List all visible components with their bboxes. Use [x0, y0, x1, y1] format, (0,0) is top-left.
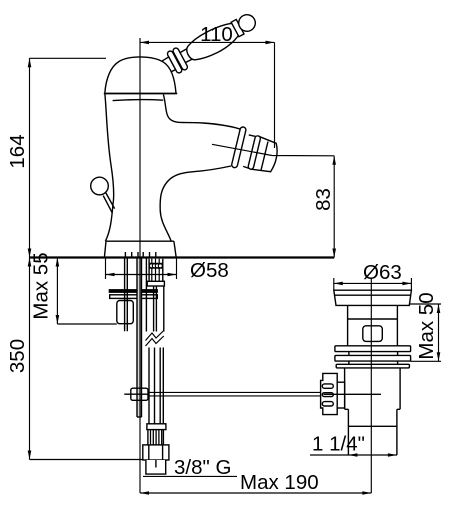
pop-up rod 2 (gray): [137, 259, 141, 418]
aerator axis leader: [212, 144, 334, 156]
lever neck: [179, 46, 197, 63]
svg-text:Ø63: Ø63: [363, 261, 402, 284]
ring bar 2: [166, 50, 182, 74]
3/8G leader underline: [143, 475, 237, 477]
spout end flange ring 1: [231, 126, 246, 168]
rod line inside drain body: [324, 393, 382, 395]
plate bar 3: [336, 364, 409, 368]
clamp block 1: [117, 301, 134, 324]
ext top 164: [30, 57, 107, 59]
svg-text:Max 50: Max 50: [415, 292, 438, 359]
dim 63 line: [334, 282, 412, 284]
arrow Max190 left: [140, 491, 149, 495]
wall segments between bars: [349, 352, 398, 365]
body joint line: [348, 318, 398, 320]
Max50 dim line: [438, 304, 440, 361]
arrow 63 right: [402, 282, 411, 286]
arrow 110 left: [140, 41, 149, 45]
knurled nut: [321, 373, 338, 414]
rod2 tip line: [137, 416, 142, 418]
svg-text:164: 164: [6, 134, 29, 168]
neck line under brim: [113, 100, 164, 101]
collar below ball: [231, 19, 244, 36]
lever body: [183, 19, 241, 65]
pipe stub below nut: [146, 460, 166, 474]
flange inner line: [335, 294, 411, 296]
horizontal rod to drain (double line): [148, 392, 321, 396]
arrow Max55 top: [56, 258, 60, 267]
knurl slots: [322, 384, 333, 388]
base plinth: [104, 241, 176, 257]
faucet centre line: [139, 38, 141, 493]
deck line: [30, 256, 335, 258]
lift rod 1: [125, 259, 128, 332]
plate bar 1: [335, 346, 411, 352]
aerator neck between rings: [243, 135, 258, 169]
washer bar A: [109, 290, 157, 292]
knob stem: [103, 192, 114, 212]
collar above thread: [147, 424, 166, 430]
aerator mid ring line: [261, 142, 268, 171]
supply tube below break: [149, 348, 163, 424]
arrow Max50 bottom: [437, 352, 441, 361]
dim 58 line: [106, 274, 177, 276]
Max50 ext lines: [410, 304, 442, 361]
tailpipe: [348, 409, 397, 455]
arrow 110 right: [266, 41, 275, 45]
ring bar 1: [172, 47, 188, 71]
washer bar B: [110, 295, 158, 299]
shank nut: [147, 281, 164, 286]
dim 110 right extension: [274, 42, 276, 148]
svg-text:1 1/4": 1 1/4": [312, 433, 365, 456]
svg-text:350: 350: [6, 339, 29, 373]
socket tube: [148, 57, 175, 81]
arrow 350 top: [28, 258, 32, 267]
Max55 dim line: [56, 258, 58, 325]
ball finial: [236, 12, 258, 34]
drain flange: [334, 290, 412, 305]
handle U-lever group (ceramic lever with ball finial): [146, 8, 260, 84]
dim 83 line: [333, 156, 335, 258]
threaded shank under deck (vertical ribs): [149, 259, 163, 282]
stub centre tick: [155, 460, 157, 468]
dim 63 ext ticks: [334, 278, 412, 290]
dim 1 1/4 line: [310, 454, 397, 456]
body left outline: [105, 94, 114, 241]
horizontal rod left stub: [124, 393, 148, 395]
supply tubes above break: [146, 259, 163, 332]
Max55 bottom extension: [57, 323, 116, 325]
arrow Max50 top: [437, 304, 441, 313]
drain lower body: [345, 368, 401, 409]
square hole: [363, 326, 383, 342]
arrow 83 bottom: [332, 249, 336, 258]
spout top edge: [163, 95, 240, 130]
arrow 350 bottom: [28, 451, 32, 460]
ticks through plinth (rods crossing deck): [125, 252, 155, 259]
dim 58 ext ticks: [106, 259, 177, 280]
arrow 164 top: [28, 58, 32, 67]
svg-text:Max 55: Max 55: [30, 252, 53, 319]
dome brim bottom line: [104, 93, 177, 95]
side knob lever: [91, 177, 109, 195]
pipe break symbol: [144, 332, 167, 343]
ext bottom 350: [30, 459, 143, 461]
arrow 58 left: [106, 273, 115, 277]
Max190 dim line: [140, 492, 371, 494]
clamp block 2: [131, 388, 148, 400]
drain upper body: [348, 305, 398, 345]
arrow 1-1/4 left: [348, 453, 357, 457]
svg-text:Max 190: Max 190: [240, 471, 319, 494]
supply nut 3/8G: [143, 445, 169, 460]
svg-text:3/8" G: 3/8" G: [174, 456, 231, 479]
arrow Max55 bottom: [56, 315, 60, 324]
dim 110 line: [140, 41, 275, 43]
arrow 63 left: [334, 282, 343, 286]
svg-text:110: 110: [200, 23, 233, 46]
svg-text:Ø58: Ø58: [190, 259, 229, 282]
arrow 58 right: [168, 273, 177, 277]
faucet dome cap: [105, 57, 176, 94]
dim 164/350 vertical line: [29, 58, 31, 459]
svg-text:83: 83: [312, 188, 335, 211]
aerator body: [251, 136, 277, 171]
tailpipe thread line: [348, 425, 397, 427]
aerator ring 2: [248, 135, 261, 169]
arrow 1-1/4 right: [388, 453, 397, 457]
knurl collar: [337, 382, 344, 408]
arrow Max190 right: [362, 491, 371, 495]
arrow 164 bottom: [28, 249, 32, 258]
arrow 83 top: [332, 156, 336, 165]
thread zone (vertical ribs): [148, 430, 164, 445]
body right outline / spout underside: [160, 166, 231, 241]
drain centre line: [370, 278, 372, 493]
plate bar 2: [335, 355, 411, 361]
thread crest bumps: [149, 264, 153, 268]
